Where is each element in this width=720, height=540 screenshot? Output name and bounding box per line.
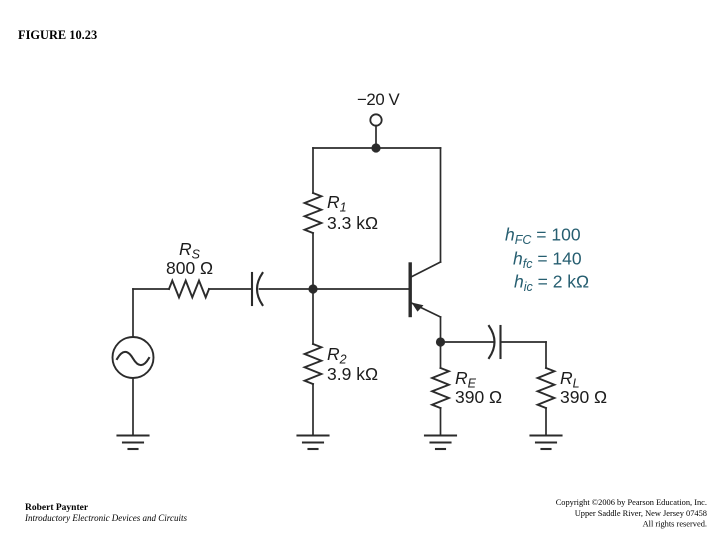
svg-text:−20 V: −20 V [357, 90, 401, 109]
transistor Q1 emitter line [412, 303, 441, 317]
svg-text:hfc = 140: hfc = 140 [513, 249, 582, 272]
svg-text:3.3 kΩ: 3.3 kΩ [327, 213, 378, 233]
supply terminal circle [370, 114, 381, 125]
svg-text:390 Ω: 390 Ω [455, 387, 502, 407]
resistor R2 [305, 344, 322, 384]
ground under RL [531, 436, 562, 450]
transistor Q1 base bar [409, 264, 412, 316]
svg-text:3.9 kΩ: 3.9 kΩ [327, 364, 378, 384]
svg-text:Upper Saddle River, New Jersey: Upper Saddle River, New Jersey 07458 [575, 509, 707, 518]
svg-text:hFC = 100: hFC = 100 [505, 225, 581, 248]
resistor RE [432, 368, 449, 408]
wire source bottom vertical [132, 378, 134, 436]
ground under R2 [298, 436, 329, 450]
wire RL bottom vertical [545, 408, 547, 436]
svg-text:Robert Paynter: Robert Paynter [25, 503, 89, 513]
node supply junction dot [371, 143, 380, 152]
wire emitter node to C2 [441, 341, 495, 343]
wire source to RS [133, 288, 169, 290]
wire collector vertical [440, 148, 442, 262]
wire RL top vertical [545, 342, 547, 368]
svg-text:All rights reserved.: All rights reserved. [643, 520, 707, 529]
wire C2 to RL [501, 341, 547, 343]
wire RE bottom vertical [440, 408, 442, 436]
svg-text:390 Ω: 390 Ω [560, 387, 607, 407]
wire top horizontal [313, 147, 441, 149]
transistor Q1 emitter arrow (PNP) [412, 303, 424, 312]
svg-text:800 Ω: 800 Ω [166, 258, 213, 278]
svg-text:R1: R1 [327, 192, 347, 215]
capacitor C1 [252, 273, 263, 305]
transistor Q1 collector line [411, 262, 441, 277]
AC source VS [113, 337, 154, 378]
wire RS to C1 [209, 288, 252, 290]
ground under source [118, 436, 149, 450]
svg-text:hic = 2 kΩ: hic = 2 kΩ [514, 272, 589, 295]
wire RE top vertical [440, 342, 442, 368]
wire source top vertical [132, 289, 134, 337]
svg-text:Introductory Electronic Device: Introductory Electronic Devices and Circ… [24, 513, 187, 523]
resistor RS [169, 281, 209, 298]
wire R2 top vertical [312, 289, 314, 344]
node emitter junction dot [436, 337, 445, 346]
resistor R1 [305, 193, 322, 233]
resistor RL [538, 368, 555, 408]
svg-text:Copyright ©2006 by Pearson Edu: Copyright ©2006 by Pearson Education, In… [556, 498, 707, 507]
ground under RE [425, 436, 456, 450]
wire R1 top vertical [312, 148, 314, 193]
wire R2 bottom vertical [312, 384, 314, 436]
node base junction dot [308, 284, 317, 293]
wire C1 to base [260, 288, 409, 290]
capacitor C2 [489, 326, 501, 358]
wire emitter vertical [440, 317, 442, 342]
svg-text:FIGURE 10.23: FIGURE 10.23 [18, 28, 97, 42]
wire supply vertical [375, 126, 377, 148]
wire R1 bottom vertical [312, 233, 314, 289]
